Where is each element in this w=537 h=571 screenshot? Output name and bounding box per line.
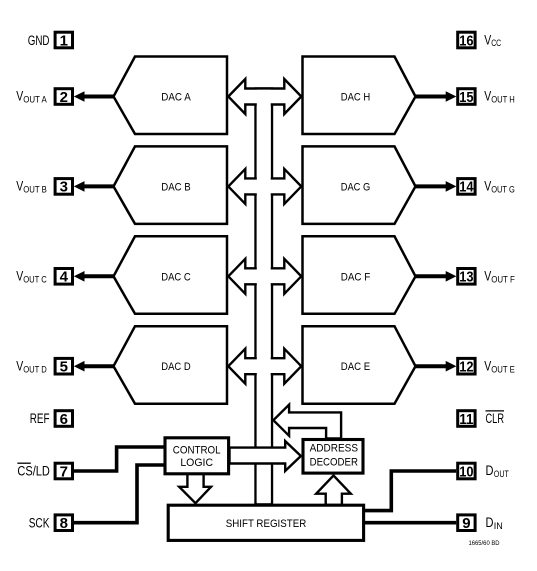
wire: pin 7 CS/LD to control logic	[74, 447, 165, 471]
svg-text:DAC C: DAC C	[161, 271, 191, 283]
pin 1	[55, 32, 72, 49]
svg-text:1: 1	[60, 32, 68, 49]
svg-text:16: 16	[459, 32, 473, 49]
svg-text:ADDRESS: ADDRESS	[310, 443, 358, 455]
DAC block G (DAC G)	[303, 146, 416, 224]
svg-text:DAC E: DAC E	[341, 361, 371, 373]
svg-text:CLR: CLR	[486, 411, 505, 426]
wire: pin 10 DOUT to shift register	[364, 471, 456, 511]
svg-text:7: 7	[60, 463, 68, 480]
svg-text:CC: CC	[491, 38, 501, 49]
svg-text:OUT E: OUT E	[491, 364, 515, 375]
output arrow: DAC E to pin 12	[415, 361, 457, 372]
pin label VOUT B	[16, 178, 47, 196]
data bus interior	[257, 90, 271, 503]
output arrow: DAC A to pin 2	[74, 91, 115, 102]
pin label VOUT C	[16, 268, 47, 286]
pin label VOUT F	[484, 268, 515, 286]
svg-text:OUT H: OUT H	[491, 95, 515, 106]
svg-text:OUT D: OUT D	[23, 364, 47, 375]
pin 14	[458, 179, 475, 196]
svg-text:IN: IN	[494, 521, 503, 532]
svg-text:3: 3	[60, 179, 68, 196]
svg-text:2: 2	[60, 89, 68, 106]
pin label DOUT	[486, 462, 509, 480]
pin label VOUT G	[484, 178, 515, 196]
pin label CLR (overlined)	[486, 411, 505, 426]
pin label VOUT H	[484, 88, 515, 106]
pin label CS/LD (CS overlined)	[17, 463, 50, 479]
svg-text:D: D	[486, 514, 494, 530]
svg-text:GND: GND	[28, 33, 50, 48]
wire: pin 8 SCK to control logic	[74, 465, 165, 523]
svg-text:15: 15	[459, 89, 473, 106]
svg-text:4: 4	[60, 269, 69, 286]
DAC block E (DAC E)	[303, 326, 416, 404]
pin 7	[55, 463, 72, 480]
svg-text:DAC F: DAC F	[341, 271, 371, 283]
address decoder block U-ADDR	[303, 440, 363, 474]
pin 6	[55, 411, 72, 428]
svg-text:DAC D: DAC D	[161, 361, 191, 373]
pin 2	[55, 89, 72, 106]
wire: pin 9 DIN to shift register	[364, 521, 456, 525]
hollow arrow: shift register to address decoder	[316, 476, 351, 506]
svg-text:OUT G: OUT G	[491, 185, 515, 196]
pin 15	[458, 89, 475, 106]
svg-text:SHIFT REGISTER: SHIFT REGISTER	[226, 518, 307, 530]
svg-text:SCK: SCK	[29, 515, 50, 530]
svg-text:14: 14	[459, 179, 474, 196]
DAC block B (DAC B)	[114, 146, 228, 224]
pin 10	[458, 463, 475, 480]
svg-text:DAC G: DAC G	[341, 181, 371, 193]
svg-text:OUT F: OUT F	[491, 275, 515, 286]
figure tag 1665/60 BD	[469, 540, 500, 547]
output arrow: DAC F to pin 13	[415, 271, 457, 282]
svg-text:D: D	[486, 462, 494, 478]
svg-text:OUT: OUT	[494, 469, 509, 480]
pin 13	[458, 269, 475, 286]
pin label VOUT E	[484, 357, 515, 375]
svg-text:1665/60 BD: 1665/60 BD	[469, 540, 500, 547]
shift register block U-SR	[168, 505, 363, 540]
bus double-arrow to DAC C/F row	[228, 259, 301, 294]
svg-text:OUT A: OUT A	[23, 95, 47, 106]
pin label VOUT D	[16, 357, 47, 375]
control logic block U-CTRL	[165, 438, 229, 474]
svg-text:CONTROL: CONTROL	[173, 445, 221, 457]
pin label SCK	[29, 515, 50, 530]
svg-text:DAC H: DAC H	[341, 92, 371, 104]
svg-text:DECODER: DECODER	[310, 457, 359, 469]
svg-text:11: 11	[459, 411, 473, 428]
DAC block D (DAC D)	[114, 326, 228, 404]
output arrow: DAC H to pin 15	[415, 91, 457, 102]
pin 9	[458, 515, 475, 532]
svg-text:5: 5	[60, 359, 68, 376]
svg-text:13: 13	[459, 269, 473, 286]
output arrow: DAC B to pin 3	[74, 181, 115, 192]
hollow arrow: control logic to address decoder	[230, 441, 301, 471]
data bus (hollow vertical bus)	[256, 89, 273, 505]
svg-text:8: 8	[60, 515, 68, 532]
hollow arrow: address decoder to bus	[273, 405, 341, 439]
pin 5	[55, 358, 72, 375]
svg-text:6: 6	[60, 411, 68, 428]
svg-text:DAC B: DAC B	[161, 181, 191, 193]
pin 4	[55, 269, 72, 286]
DAC block F (DAC F)	[303, 236, 416, 313]
pin 12	[458, 358, 475, 375]
svg-text:LOGIC: LOGIC	[180, 457, 213, 469]
svg-text:DAC A: DAC A	[161, 92, 191, 104]
output arrow: DAC C to pin 4	[74, 271, 115, 282]
pin 3	[55, 179, 72, 196]
DAC block C (DAC C)	[114, 236, 228, 313]
pin label DIN	[486, 514, 503, 532]
hollow arrow: control logic to shift register	[179, 474, 211, 504]
pin 8	[55, 515, 72, 532]
pin label GND	[28, 33, 50, 48]
DAC block H (DAC H)	[303, 57, 416, 135]
svg-text:CS/LD: CS/LD	[17, 464, 50, 479]
svg-text:OUT C: OUT C	[23, 275, 47, 286]
pin label REF	[30, 411, 50, 426]
bus double-arrow to DAC D/E row	[228, 349, 301, 384]
output arrow: DAC G to pin 14	[415, 181, 457, 192]
svg-text:OUT B: OUT B	[23, 185, 47, 196]
DAC block A (DAC A)	[114, 57, 228, 135]
pin label VOUT A	[16, 88, 47, 106]
pin 11	[458, 411, 475, 428]
svg-text:REF: REF	[30, 411, 50, 426]
bus double-arrow to DAC A/H row	[228, 79, 301, 114]
pin label VCC	[484, 31, 501, 49]
svg-text:9: 9	[462, 515, 470, 532]
svg-text:10: 10	[459, 463, 473, 480]
bus double-arrow to DAC B/G row	[228, 169, 301, 204]
svg-text:12: 12	[459, 359, 473, 376]
output arrow: DAC D to pin 5	[74, 361, 115, 372]
pin 16	[458, 32, 475, 49]
